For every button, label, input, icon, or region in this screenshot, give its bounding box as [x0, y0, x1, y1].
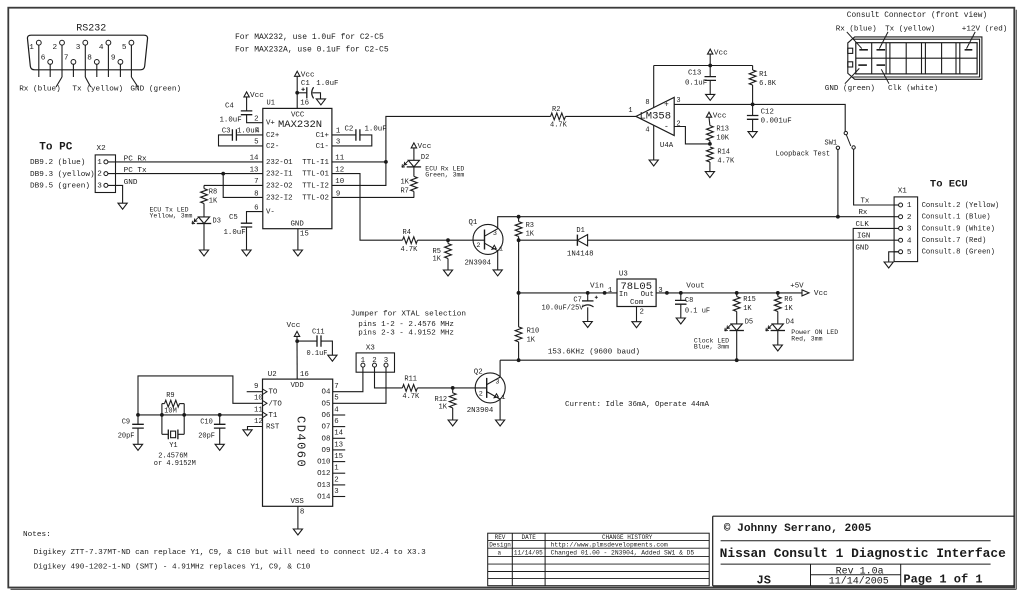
resistor R7 — [411, 176, 418, 191]
X1 pin 1 — [894, 204, 899, 206]
svg-text:1: 1 — [499, 246, 503, 254]
junction R6 tap — [776, 291, 780, 295]
wire Q1 emitter to ground — [497, 251, 499, 270]
wire C8 top — [680, 293, 682, 301]
resistor R11 — [402, 385, 417, 392]
wire R15 top — [736, 293, 738, 297]
svg-text:1K: 1K — [439, 404, 448, 412]
svg-text:2N3904: 2N3904 — [467, 407, 494, 415]
svg-text:3: 3 — [334, 488, 338, 496]
ground U4A pin4 — [649, 160, 658, 166]
svg-text:9: 9 — [111, 55, 116, 63]
wire SW1 to Rx line — [837, 150, 839, 217]
svg-text:X2: X2 — [97, 145, 107, 153]
wire TTL-I1 up to R2 line — [386, 116, 551, 161]
DB9 pin 1 — [36, 40, 41, 45]
capacitor C12 — [747, 116, 759, 120]
svg-text:16: 16 — [300, 371, 309, 379]
svg-text:1.0uF: 1.0uF — [365, 125, 387, 133]
svg-text:Y1: Y1 — [169, 442, 177, 450]
svg-text:2: 2 — [479, 391, 483, 399]
title divider 1 — [721, 540, 991, 542]
svg-text:C12: C12 — [761, 109, 774, 117]
svg-text:O13: O13 — [317, 482, 330, 490]
wire to C1 — [297, 92, 307, 94]
svg-text:7: 7 — [254, 178, 258, 186]
U2 pin 9 TO — [263, 389, 268, 395]
consult pin GND — [858, 64, 867, 66]
junction C13 node — [708, 64, 712, 68]
svg-text:16: 16 — [300, 100, 309, 108]
resistor R15 — [733, 297, 740, 312]
IC U2 CD4060 body — [263, 379, 333, 506]
wire D5 to clock rail — [736, 331, 738, 360]
svg-text:SW1: SW1 — [825, 139, 838, 147]
wire R5 to ground — [447, 259, 449, 271]
svg-text:R7: R7 — [400, 188, 408, 196]
ground VSS — [293, 529, 302, 535]
svg-text:4.7K: 4.7K — [402, 393, 420, 401]
op-amp U4A LM358 triangle — [636, 97, 674, 135]
svg-text:TTL-I1: TTL-I1 — [302, 159, 329, 167]
junction C8 tap — [679, 291, 683, 295]
ground C8 — [676, 318, 685, 324]
svg-text:15: 15 — [334, 453, 343, 461]
wire C13 top — [709, 66, 711, 77]
junction PC Tx branch — [221, 172, 225, 176]
svg-text:+5V: +5V — [790, 283, 804, 291]
capacitor C9 — [137, 415, 139, 424]
svg-text:1.0uF: 1.0uF — [316, 80, 338, 88]
svg-text:C2: C2 — [345, 125, 354, 133]
wire X1.5 to ground — [889, 252, 899, 262]
wire D3 to ground — [203, 224, 205, 250]
wire C3 to U1.5 C2- — [219, 135, 263, 146]
svg-text:1K: 1K — [433, 256, 442, 264]
svg-text:1K: 1K — [784, 305, 793, 313]
ground C1 — [316, 99, 325, 105]
svg-text:For MAX232, use 1.0uF for C2-C: For MAX232, use 1.0uF for C2-C5 — [235, 33, 384, 42]
LED D4 — [772, 324, 783, 331]
svg-text:Tx (yellow): Tx (yellow) — [72, 86, 123, 94]
capacitor C10 — [219, 415, 221, 424]
svg-text:1: 1 — [29, 44, 34, 52]
svg-text:MAX232N: MAX232N — [278, 119, 322, 131]
svg-text:11/14/2005: 11/14/2005 — [829, 576, 889, 588]
svg-text:Yellow, 3mm: Yellow, 3mm — [150, 213, 193, 220]
svg-text:For MAX232A, use 0.1uF for C2-: For MAX232A, use 0.1uF for C2-C5 — [235, 46, 389, 55]
title block frame — [713, 516, 1015, 586]
connector X3 — [356, 353, 394, 372]
svg-text:Blue, 3mm: Blue, 3mm — [694, 343, 729, 350]
leader DB9 pin2 Rx — [56, 77, 62, 87]
svg-text:IGN: IGN — [857, 233, 870, 241]
X1 pin 2 — [894, 216, 899, 218]
consult connector latch tab upper — [848, 48, 853, 53]
svg-text:D5: D5 — [745, 319, 753, 327]
svg-text:C8: C8 — [685, 297, 693, 305]
svg-text:+12V (red): +12V (red) — [962, 25, 1008, 33]
svg-text:Vcc: Vcc — [714, 49, 728, 57]
wire C4 to U1.2 V+ — [247, 115, 263, 123]
svg-text:X3: X3 — [366, 345, 376, 353]
X1 pin 3 — [894, 227, 899, 229]
svg-text:O8: O8 — [322, 435, 331, 443]
svg-text:Tx: Tx — [861, 197, 870, 205]
DB9 pin 3 — [83, 40, 88, 45]
svg-text:C1+: C1+ — [316, 132, 330, 140]
svg-text:11: 11 — [254, 406, 263, 414]
svg-text:0.1uF: 0.1uF — [307, 350, 328, 358]
junction C12 node — [751, 103, 755, 107]
wire C12 top — [752, 104, 754, 115]
wire C5 to ground — [246, 227, 248, 250]
wire R7 to TTL-O2 — [413, 191, 415, 197]
ground C12 — [748, 132, 757, 138]
consult pin +12V — [965, 49, 973, 51]
svg-text:pins 1-2 - 2.4576 MHz: pins 1-2 - 2.4576 MHz — [358, 321, 454, 329]
resistor R9 — [165, 400, 180, 407]
svg-text:8: 8 — [645, 99, 649, 107]
svg-text:Consult.2 (Yellow): Consult.2 (Yellow) — [922, 202, 1000, 210]
svg-text:U1: U1 — [267, 99, 275, 107]
svg-text:© Johnny Serrano, 2005: © Johnny Serrano, 2005 — [724, 523, 872, 535]
junction SW1 Rx — [836, 215, 840, 219]
svg-text:U4A: U4A — [660, 142, 674, 150]
U2 pin 10 /TO — [263, 401, 268, 407]
svg-text:R4: R4 — [403, 229, 411, 237]
resistor R4 — [403, 237, 418, 244]
wire Q1 collector — [498, 217, 519, 229]
connector X1 — [894, 197, 918, 262]
ground Q1 emitter — [493, 270, 502, 276]
svg-text:Vout: Vout — [686, 283, 704, 291]
svg-text:Vin: Vin — [590, 283, 604, 291]
change history table frame — [488, 533, 710, 586]
svg-text:R2: R2 — [552, 106, 560, 114]
svg-text:0.001uF: 0.001uF — [761, 118, 792, 126]
svg-text:CD4060: CD4060 — [294, 416, 308, 468]
resistor R12 — [449, 393, 456, 408]
svg-text:1.0uF: 1.0uF — [224, 229, 246, 237]
DB9 pin 2 — [60, 40, 65, 45]
wire Vcc to U1.16 — [296, 76, 298, 108]
svg-text:R8: R8 — [209, 188, 217, 196]
wire R2 to U4A output — [566, 115, 637, 117]
svg-text:8: 8 — [87, 55, 92, 63]
svg-text:1.0uF: 1.0uF — [220, 116, 242, 124]
diode D1 1N4148 — [576, 235, 578, 246]
svg-text:C5: C5 — [229, 214, 238, 222]
consult pin Tx — [877, 49, 886, 51]
svg-text:13: 13 — [334, 441, 343, 449]
svg-text:Red, 3mm: Red, 3mm — [791, 335, 822, 342]
wire U1.15 GND — [297, 229, 299, 250]
wire R3 bottom — [518, 237, 520, 241]
svg-text:0.1uF: 0.1uF — [685, 79, 707, 87]
svg-text:1: 1 — [608, 287, 613, 295]
DB9 pin 9 — [118, 60, 123, 65]
svg-text:DB9.3 (yellow): DB9.3 (yellow) — [30, 171, 95, 179]
wire Q2 emitter to ground — [499, 399, 501, 420]
svg-text:Nissan Consult 1 Diagnostic In: Nissan Consult 1 Diagnostic Interface — [720, 546, 1006, 561]
title inner dividers — [811, 564, 901, 586]
resistor R8 — [201, 189, 208, 204]
wire R9 loop right — [183, 404, 185, 435]
wire Vin drop — [518, 240, 520, 293]
U2 pin 11 T1 — [263, 412, 268, 418]
svg-text:232-O2: 232-O2 — [266, 182, 293, 190]
wire Vcc to D2 — [413, 148, 415, 160]
svg-text:20pF: 20pF — [198, 432, 215, 440]
wire Vcc to R13 — [708, 117, 711, 125]
wire U1.10 TTL-I2 — [332, 162, 386, 186]
svg-text:13: 13 — [250, 166, 259, 174]
svg-text:-: - — [664, 123, 669, 132]
svg-text:C11: C11 — [312, 328, 325, 336]
svg-text:O5: O5 — [322, 400, 331, 408]
svg-text:O14: O14 — [317, 493, 331, 501]
leader consult Tx — [879, 32, 888, 49]
junction R10 rail — [517, 358, 521, 362]
title divider 2 — [721, 563, 991, 565]
ground D4 — [773, 345, 782, 351]
svg-text:6: 6 — [334, 418, 338, 426]
svg-text:V-: V- — [266, 209, 275, 217]
wire R12 to ground — [452, 408, 454, 420]
capacitor C1 (polarized) — [306, 87, 308, 98]
svg-text:JS: JS — [757, 573, 771, 587]
resistor R13 — [707, 126, 714, 141]
wire O5 to X3.3 — [333, 367, 386, 403]
svg-text:O10: O10 — [317, 459, 330, 467]
wire U1.9 TTL-O2 to R7 — [332, 196, 414, 198]
svg-text:Consult.7 (Red): Consult.7 (Red) — [922, 237, 987, 245]
wire Q2 collector — [499, 360, 501, 377]
wire C7 to ground — [587, 307, 589, 321]
junction R9 left — [160, 413, 164, 417]
wire R1 top — [752, 66, 754, 71]
svg-text:1: 1 — [907, 202, 912, 210]
power Vcc at R13 — [706, 112, 711, 117]
junction R12 node — [451, 386, 455, 390]
svg-text:1K: 1K — [526, 231, 535, 239]
wire to C11 — [297, 340, 317, 342]
svg-text:CHANGE HISTORY: CHANGE HISTORY — [602, 534, 653, 541]
svg-text:10: 10 — [254, 395, 263, 403]
svg-text:RST: RST — [266, 423, 280, 431]
svg-text:R6: R6 — [784, 296, 792, 304]
svg-text:Vcc: Vcc — [814, 290, 828, 298]
svg-text:To PC: To PC — [39, 141, 72, 153]
svg-text:Loopback Test: Loopback Test — [776, 150, 831, 158]
svg-text:R11: R11 — [404, 375, 417, 383]
svg-text:0.1 uF: 0.1 uF — [685, 307, 710, 315]
svg-text:GND: GND — [291, 221, 305, 229]
DB9 pin 4 — [106, 40, 111, 45]
ground X1 — [884, 262, 893, 268]
wire O4 to X3.1 — [333, 367, 363, 392]
svg-text:C7: C7 — [573, 297, 581, 305]
svg-text:Consult.1 (Blue): Consult.1 (Blue) — [922, 214, 991, 222]
svg-text:3: 3 — [658, 287, 662, 295]
svg-text:9: 9 — [254, 383, 258, 391]
DB9 pin 7 — [71, 60, 76, 65]
wire R9 loop left — [161, 404, 163, 435]
svg-text:5: 5 — [334, 395, 338, 403]
junction C1 tap — [295, 91, 299, 95]
junction TTL-I1 node — [384, 160, 388, 164]
svg-text:D3: D3 — [213, 218, 221, 226]
junction Rx node — [517, 215, 521, 219]
wire U4A Vcc rail — [654, 65, 753, 67]
wire U2.8 VSS to ground — [297, 506, 299, 529]
transistor Q1 2N3904 — [473, 224, 503, 254]
svg-text:Digikey 490-1202-1-ND (SMT) -: Digikey 490-1202-1-ND (SMT) - 4.91MHz re… — [34, 563, 311, 571]
capacitor C4 — [241, 111, 253, 115]
svg-text:4: 4 — [645, 126, 649, 134]
svg-text:232-I2: 232-I2 — [266, 194, 293, 202]
svg-text:R12: R12 — [435, 396, 448, 404]
svg-text:D2: D2 — [421, 154, 429, 162]
wire C7 top — [587, 293, 589, 301]
svg-text:C10: C10 — [200, 419, 213, 427]
svg-text:Out: Out — [641, 291, 654, 299]
resistor R14 — [707, 147, 714, 162]
wire U2.12 RST to ground — [248, 427, 263, 430]
svg-text:R1: R1 — [759, 71, 767, 79]
svg-text:R10: R10 — [527, 328, 540, 336]
svg-text:4: 4 — [99, 44, 104, 52]
wire to R5 — [447, 240, 449, 243]
svg-text:O12: O12 — [317, 470, 330, 478]
wire R9 stub left — [162, 403, 165, 405]
svg-text:7: 7 — [334, 383, 338, 391]
svg-text:R13: R13 — [716, 126, 729, 134]
svg-text:2: 2 — [97, 171, 102, 179]
capacitor C2 — [356, 129, 360, 141]
wire U2.10 loop — [138, 376, 263, 415]
svg-text:U3: U3 — [619, 271, 628, 279]
capacitor C7 — [582, 300, 594, 302]
svg-text:X1: X1 — [898, 187, 908, 195]
wire C8 to ground — [680, 304, 682, 318]
X1 pin 5 — [894, 251, 899, 253]
wire U1.1 C1+ loop — [332, 134, 356, 136]
wire Vcc to C4 — [246, 97, 248, 111]
svg-text:2: 2 — [907, 214, 912, 222]
svg-text:4.7K: 4.7K — [401, 246, 419, 254]
wire to R8 — [203, 185, 205, 188]
svg-text:232-O1: 232-O1 — [266, 159, 293, 167]
wire C13 to ground — [709, 80, 711, 94]
leader DB9 pin3 Tx — [85, 77, 90, 87]
ground C10 — [215, 444, 224, 450]
svg-text:O6: O6 — [322, 412, 331, 420]
svg-text:D1: D1 — [576, 227, 584, 235]
svg-text:Vcc: Vcc — [250, 92, 264, 100]
resistor R2 — [551, 113, 566, 120]
svg-text:pins 2-3 - 4.9152 MHz: pins 2-3 - 4.9152 MHz — [358, 330, 454, 338]
svg-text:4: 4 — [907, 237, 912, 245]
svg-text:153.6KHz (9600 baud): 153.6KHz (9600 baud) — [548, 348, 640, 356]
svg-text:2: 2 — [334, 476, 338, 484]
wire R4 to Q1 base — [418, 239, 485, 241]
ground Q2 emitter — [496, 420, 505, 426]
ground R5 — [443, 270, 452, 276]
junction R13 R14 — [708, 142, 712, 146]
wire U1.11 TTL-I1 — [332, 161, 386, 163]
wire C12 to ground — [752, 119, 754, 131]
LED D5 — [731, 324, 742, 331]
svg-text:11/14/05: 11/14/05 — [514, 549, 543, 556]
wire D4 to ground — [777, 331, 779, 345]
svg-text:Com: Com — [630, 299, 644, 307]
svg-text:3: 3 — [907, 226, 912, 234]
svg-text:3: 3 — [495, 379, 499, 387]
power Vcc at U1 pin16 — [295, 71, 300, 76]
svg-text:3: 3 — [493, 230, 497, 238]
svg-text:Vcc: Vcc — [713, 112, 727, 120]
leader DB9 pin5 GND — [131, 77, 138, 87]
svg-text:Digikey ZTT-7.37MT-ND can repl: Digikey ZTT-7.37MT-ND can replace Y1, C9… — [34, 549, 427, 557]
ground C11 — [328, 355, 337, 361]
junction Vin node — [517, 291, 521, 295]
wire Vcc to U2.16 — [296, 336, 298, 379]
X1 pin 4 — [894, 239, 899, 241]
svg-text:2: 2 — [476, 242, 480, 250]
wire R6 top — [777, 293, 779, 297]
svg-text:Q1: Q1 — [469, 219, 478, 227]
ground C9 — [133, 444, 142, 450]
wire R10 to rail — [518, 342, 520, 360]
wire U1.12 TTL-O1 to R4 — [332, 174, 403, 241]
svg-text:Q2: Q2 — [474, 368, 483, 376]
ground U1 pin15 — [293, 250, 302, 256]
crystal Y1 — [168, 430, 178, 440]
svg-text:a: a — [498, 549, 502, 556]
svg-text:GND: GND — [124, 179, 138, 187]
wire T1 line — [138, 414, 263, 416]
svg-text:1: 1 — [628, 107, 632, 115]
svg-text:10M: 10M — [164, 408, 177, 416]
svg-text:R14: R14 — [717, 149, 730, 157]
svg-text:C2+: C2+ — [266, 132, 280, 140]
svg-text:5: 5 — [122, 44, 127, 52]
wire Vcc stem — [709, 54, 711, 65]
svg-text:1K: 1K — [209, 197, 218, 205]
svg-text:6.8K: 6.8K — [759, 80, 777, 88]
wire U4A power vertical lower — [653, 125, 655, 160]
svg-text:REV: REV — [495, 534, 506, 541]
wire CLK from X1.3 — [500, 228, 894, 360]
svg-text:Rx (blue): Rx (blue) — [19, 86, 61, 94]
svg-text:8: 8 — [300, 509, 304, 517]
junction R9 right — [182, 413, 186, 417]
junction R10 top — [517, 291, 521, 295]
wire D2 to R7 — [413, 167, 415, 176]
svg-text:1K: 1K — [400, 179, 409, 187]
svg-text:Consult Connector (front view): Consult Connector (front view) — [847, 12, 987, 20]
svg-text:232-I1: 232-I1 — [266, 171, 293, 179]
wire R9 stub right — [180, 403, 185, 405]
svg-text:15: 15 — [300, 230, 309, 238]
wire X2.3 to ground — [108, 185, 123, 203]
power Vcc at C4 — [244, 92, 249, 97]
svg-text:DATE: DATE — [521, 534, 536, 541]
svg-text:TTL-O1: TTL-O1 — [302, 171, 329, 179]
svg-text:10K: 10K — [716, 135, 729, 143]
